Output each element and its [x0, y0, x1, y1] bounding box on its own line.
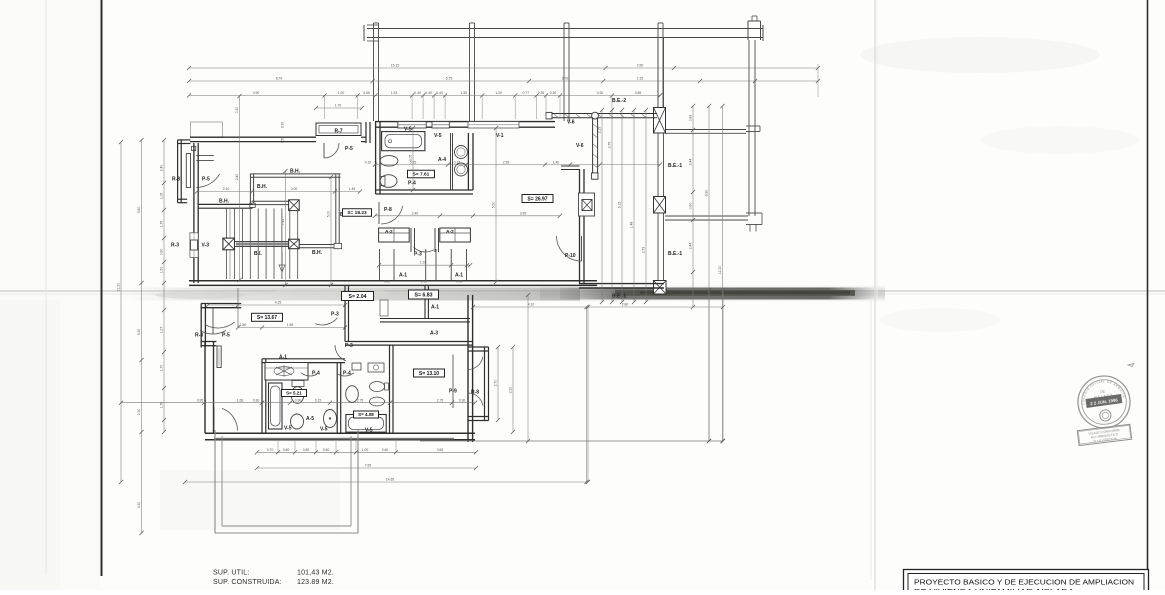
- svg-text:S= 18.23: S= 18.23: [347, 210, 367, 216]
- svg-text:7.65: 7.65: [365, 464, 372, 468]
- svg-text:2.44: 2.44: [689, 243, 693, 250]
- svg-text:1.48: 1.48: [630, 222, 634, 229]
- svg-text:P-4: P-4: [408, 181, 416, 187]
- svg-text:B.E.-2: B.E.-2: [612, 98, 626, 104]
- svg-text:0.60: 0.60: [160, 249, 164, 256]
- svg-text:5.00: 5.00: [327, 211, 331, 218]
- svg-text:R-7: R-7: [334, 129, 342, 135]
- svg-text:1.27: 1.27: [160, 327, 164, 334]
- svg-text:V-3: V-3: [202, 243, 210, 249]
- svg-text:6.15: 6.15: [618, 202, 622, 209]
- svg-text:3.65: 3.65: [437, 448, 444, 452]
- svg-text:0.90: 0.90: [295, 398, 302, 402]
- svg-text:S= 4.08: S= 4.08: [358, 412, 374, 417]
- svg-text:0.30: 0.30: [253, 398, 260, 402]
- svg-text:4.25: 4.25: [275, 301, 282, 305]
- svg-text:DE: DE: [1100, 389, 1105, 394]
- svg-text:0.40: 0.40: [425, 91, 432, 95]
- svg-text:3.05: 3.05: [409, 155, 413, 162]
- svg-text:0.15: 0.15: [454, 160, 461, 164]
- svg-text:0.15: 0.15: [315, 398, 322, 402]
- svg-text:V-6: V-6: [576, 143, 584, 149]
- svg-text:2.10: 2.10: [223, 187, 230, 191]
- svg-text:0.60: 0.60: [323, 448, 330, 452]
- svg-text:S= 26.97: S= 26.97: [527, 196, 547, 202]
- svg-text:1.68: 1.68: [237, 398, 244, 402]
- svg-text:A-3: A-3: [430, 331, 438, 337]
- svg-text:1.33: 1.33: [391, 91, 398, 95]
- svg-text:0.83: 0.83: [689, 115, 693, 122]
- svg-text:2.70: 2.70: [494, 380, 498, 387]
- svg-text:0.60: 0.60: [283, 448, 290, 452]
- svg-text:A-5: A-5: [306, 416, 314, 422]
- svg-text:R-8: R-8: [195, 333, 203, 339]
- svg-text:1.05: 1.05: [160, 193, 164, 200]
- svg-text:2.79: 2.79: [608, 142, 612, 149]
- svg-text:0.80: 0.80: [456, 280, 462, 284]
- svg-text:P-3: P-3: [345, 343, 353, 349]
- svg-text:5.60: 5.60: [137, 207, 141, 214]
- svg-text:V-6: V-6: [567, 120, 575, 126]
- svg-text:V-5: V-5: [365, 428, 373, 434]
- svg-text:11.20: 11.20: [117, 283, 121, 291]
- svg-text:4.10: 4.10: [528, 303, 535, 307]
- svg-text:5.75: 5.75: [446, 77, 453, 81]
- svg-text:B.H.: B.H.: [312, 250, 323, 256]
- svg-text:0.35: 0.35: [538, 91, 545, 95]
- svg-text:B.E.-1: B.E.-1: [668, 251, 682, 257]
- svg-text:A-4: A-4: [438, 157, 446, 163]
- svg-text:0.30: 0.30: [597, 91, 604, 95]
- svg-text:P-3: P-3: [331, 312, 339, 318]
- svg-text:S= 6.83: S= 6.83: [414, 292, 432, 298]
- svg-text:0.30: 0.30: [281, 122, 285, 128]
- svg-text:0.30: 0.30: [235, 107, 239, 114]
- svg-text:0.82: 0.82: [384, 280, 390, 284]
- svg-text:0.70: 0.70: [267, 448, 274, 452]
- svg-text:S= 13.67: S= 13.67: [257, 315, 277, 321]
- svg-text:1.55: 1.55: [287, 323, 294, 327]
- svg-text:0.60: 0.60: [382, 448, 389, 452]
- svg-text:0.95: 0.95: [197, 398, 204, 402]
- svg-text:V-5: V-5: [404, 127, 412, 133]
- svg-text:0.15: 0.15: [365, 160, 372, 164]
- svg-text:B.I.: B.I.: [254, 251, 262, 257]
- svg-text:0.77: 0.77: [522, 91, 529, 95]
- svg-text:6.90: 6.90: [705, 190, 709, 197]
- svg-text:P-5: P-5: [345, 146, 353, 152]
- svg-text:1.20: 1.20: [495, 91, 502, 95]
- svg-text:0.40: 0.40: [414, 91, 421, 95]
- svg-text:2.20: 2.20: [509, 387, 513, 394]
- svg-text:S= 5.21: S= 5.21: [286, 391, 302, 396]
- svg-text:P-10: P-10: [565, 253, 576, 259]
- svg-text:4.90: 4.90: [253, 91, 260, 95]
- svg-text:2.50: 2.50: [637, 64, 644, 68]
- svg-text:0.30: 0.30: [550, 91, 557, 95]
- svg-text:1.20: 1.20: [338, 91, 345, 95]
- svg-text:P-5: P-5: [222, 333, 230, 339]
- svg-text:0.85: 0.85: [635, 91, 642, 95]
- svg-text:SUP. CONSTRUIDA:: SUP. CONSTRUIDA:: [213, 579, 282, 586]
- svg-text:V-1: V-1: [496, 133, 504, 139]
- svg-text:1.10: 1.10: [420, 261, 427, 265]
- svg-text:14.65: 14.65: [386, 478, 395, 482]
- svg-text:2.75: 2.75: [437, 398, 444, 402]
- svg-text:1.70: 1.70: [335, 104, 342, 108]
- svg-text:B.E.-1: B.E.-1: [612, 294, 626, 300]
- svg-text:A-2: A-2: [446, 229, 454, 235]
- svg-text:2.73: 2.73: [642, 247, 646, 254]
- svg-text:2.40: 2.40: [160, 165, 164, 172]
- svg-text:V-5: V-5: [320, 427, 328, 433]
- svg-text:B.H.: B.H.: [219, 199, 230, 205]
- svg-text:B.H.: B.H.: [290, 169, 301, 175]
- svg-text:1.40: 1.40: [553, 160, 560, 164]
- svg-text:0.40: 0.40: [436, 91, 443, 95]
- svg-text:12.20: 12.20: [718, 266, 722, 275]
- svg-text:P-8: P-8: [384, 207, 392, 213]
- svg-text:5.50: 5.50: [492, 202, 496, 209]
- svg-text:2.75: 2.75: [357, 398, 364, 402]
- svg-text:7.45: 7.45: [281, 219, 285, 226]
- svg-text:2.80: 2.80: [622, 303, 629, 307]
- svg-text:3.00: 3.00: [291, 187, 298, 191]
- svg-text:R-8: R-8: [172, 177, 180, 183]
- svg-text:A-1: A-1: [399, 273, 407, 279]
- svg-text:0.60: 0.60: [689, 203, 693, 210]
- svg-text:2.40: 2.40: [235, 174, 239, 181]
- svg-text:0.65: 0.65: [363, 91, 370, 95]
- svg-text:A-1: A-1: [279, 355, 287, 361]
- svg-text:1.00: 1.00: [362, 448, 369, 452]
- svg-text:123.89 M2.: 123.89 M2.: [297, 579, 334, 586]
- svg-text:S= 13.10: S= 13.10: [419, 371, 439, 377]
- svg-text:1.45: 1.45: [349, 187, 356, 191]
- svg-text:8.70: 8.70: [276, 77, 283, 81]
- svg-text:2.19: 2.19: [598, 127, 602, 134]
- svg-text:3.95: 3.95: [520, 212, 527, 216]
- svg-text:S= 7.61: S= 7.61: [413, 172, 430, 178]
- svg-text:2.15: 2.15: [637, 77, 644, 81]
- svg-text:PROYECTO BASICO Y DE EJECUCION: PROYECTO BASICO Y DE EJECUCION DE AMPLIA…: [914, 578, 1134, 587]
- svg-text:3.30: 3.30: [137, 329, 141, 336]
- svg-text:2.95: 2.95: [503, 160, 510, 164]
- svg-text:2.30: 2.30: [137, 409, 141, 416]
- svg-text:A-1: A-1: [431, 305, 439, 311]
- svg-text:2.44: 2.44: [689, 159, 693, 166]
- svg-text:0.30: 0.30: [459, 398, 466, 402]
- svg-text:SUP. UTIL:: SUP. UTIL:: [213, 570, 250, 577]
- svg-text:B.E.-1: B.E.-1: [668, 163, 682, 169]
- svg-text:P-5: P-5: [202, 177, 210, 183]
- svg-text:2.70: 2.70: [562, 77, 569, 81]
- svg-text:0.80: 0.80: [303, 448, 310, 452]
- svg-text:3.30: 3.30: [137, 502, 141, 509]
- svg-text:1.70: 1.70: [160, 365, 164, 372]
- svg-text:2.40: 2.40: [412, 212, 419, 216]
- svg-text:15.15: 15.15: [391, 64, 400, 68]
- svg-text:A-2: A-2: [385, 229, 393, 235]
- svg-text:1.75: 1.75: [160, 221, 164, 228]
- svg-text:S= 2.04: S= 2.04: [348, 294, 366, 300]
- svg-text:1.80: 1.80: [240, 323, 247, 327]
- svg-text:1.50: 1.50: [160, 267, 164, 274]
- svg-text:V-5: V-5: [284, 426, 292, 432]
- svg-text:B.H.: B.H.: [257, 184, 268, 190]
- svg-text:A-1: A-1: [455, 273, 463, 279]
- svg-text:P-3: P-3: [414, 252, 422, 258]
- svg-text:1.50: 1.50: [281, 137, 285, 143]
- svg-text:V-5: V-5: [434, 133, 442, 139]
- svg-text:2.05: 2.05: [421, 280, 427, 284]
- svg-text:101,43 M2.: 101,43 M2.: [297, 570, 334, 577]
- svg-text:R-3: R-3: [171, 243, 179, 249]
- svg-text:1.35: 1.35: [460, 91, 467, 95]
